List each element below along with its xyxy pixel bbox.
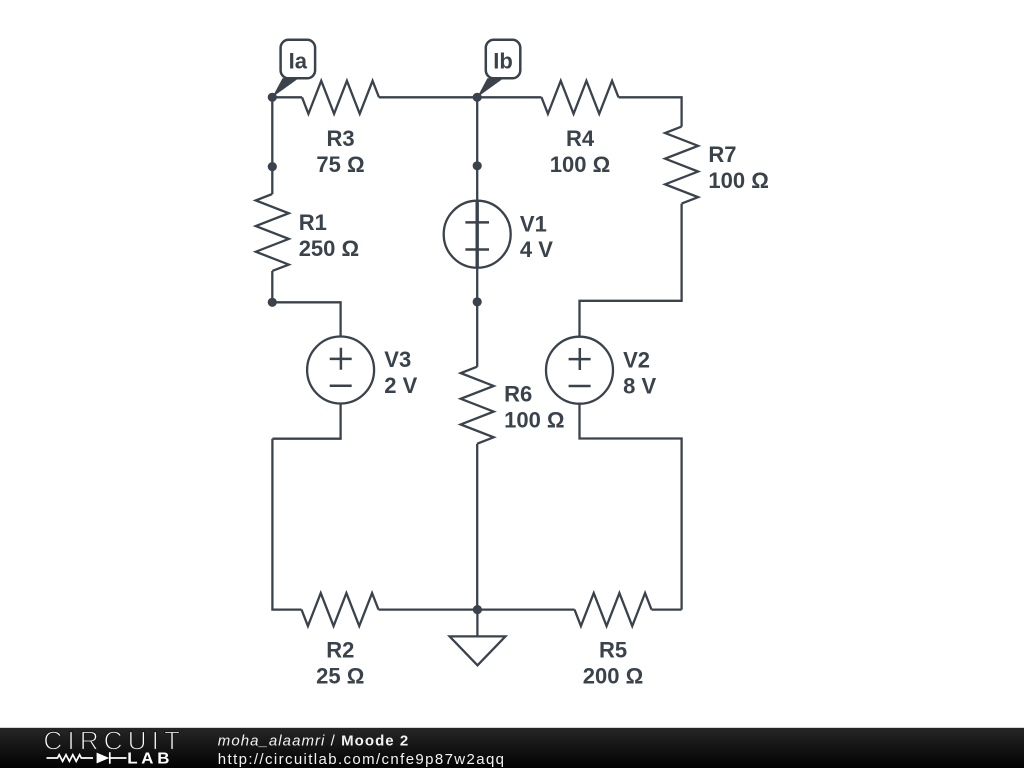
resistor R5 zigzag [575,593,652,626]
resistor R4 zigzag [542,81,619,114]
svg-text:Ib: Ib [493,49,513,74]
ground node junction dot [473,605,482,614]
current flag Ib [477,40,520,98]
resistor R7 zigzag [665,127,698,204]
V3 plus sign [330,348,352,370]
wire R4 to right rail corner [619,97,682,126]
current flag Ia [272,40,315,98]
svg-text:25 Ω: 25 Ω [316,663,364,688]
footer bar [0,728,1024,768]
svg-text:R4: R4 [566,126,595,151]
svg-text:R7: R7 [708,142,736,167]
svg-text:100 Ω: 100 Ω [504,408,564,433]
node D junction dot mid rail [473,161,482,170]
svg-text:2 V: 2 V [384,373,417,398]
svg-text:V1: V1 [520,211,547,236]
wire R3 to node B [379,96,477,98]
wire ground node to R2 [379,608,478,610]
resistor R6 zigzag [461,367,494,444]
node E junction dot left rail lower [268,298,277,307]
svg-text:V3: V3 [384,347,411,372]
ground stem [476,610,478,637]
logo CIRCUIT word [43,725,185,755]
svg-text:LAB: LAB [127,751,173,768]
wire V2 bottom jog to right rail [580,404,682,610]
logo diode [97,753,110,764]
voltage source V2 circle [546,337,613,404]
svg-text:R1: R1 [299,210,327,235]
svg-text:4 V: 4 V [520,237,553,262]
V2 minus sign [569,385,591,388]
resistor R3 zigzag [302,81,379,114]
wire R7 to V2 top jog [580,204,682,337]
ground triangle [450,636,506,665]
node B junction dot [473,93,482,102]
node F junction dot mid rail lower [473,297,482,306]
wire node A to R3 [272,96,302,98]
wire V3 top jog to node E [272,302,340,336]
svg-text:250 Ω: 250 Ω [299,236,359,261]
node C junction dot left rail [268,162,277,171]
svg-text:http://circuitlab.com/cnfe9p87: http://circuitlab.com/cnfe9p87w2aqq [218,751,506,768]
svg-text:100 Ω: 100 Ω [708,168,768,193]
svg-text:moha_alaamri / Moode 2: moha_alaamri / Moode 2 [218,732,409,749]
wire right rail to R5 [652,608,682,610]
V1 through wire [476,201,479,268]
wire R6 to ground node [476,444,478,610]
logo resistor zigzag [47,755,94,762]
node A junction dot [268,93,277,102]
resistor R2 zigzag [302,593,379,626]
voltage source V3 circle [307,337,374,404]
resistor R1 zigzag [256,194,289,271]
svg-text:200 Ω: 200 Ω [583,663,643,688]
svg-text:V2: V2 [623,347,650,372]
wire node E up to R1 [271,271,273,302]
svg-text:R3: R3 [326,126,354,151]
V3 minus sign [330,385,352,388]
wire R1 top to node A [271,97,273,194]
svg-text:R5: R5 [599,637,627,662]
svg-text:Ia: Ia [289,49,308,74]
wire node B down to V1 [476,97,478,201]
voltage source V1 circle [444,201,511,268]
V1 lower bar [465,248,489,251]
wire V1 bottom to R6 [476,268,478,367]
svg-text:100 Ω: 100 Ω [550,152,610,177]
wire R2 to left rail corner [272,439,301,610]
wire R5 to ground node [477,608,574,610]
V2 plus sign [569,348,591,370]
wire left rail to V3 bottom jog [272,404,340,439]
svg-text:R2: R2 [326,637,354,662]
svg-text:8 V: 8 V [623,373,656,398]
V1 upper bar [465,221,489,224]
svg-text:75 Ω: 75 Ω [316,152,364,177]
svg-text:R6: R6 [504,381,532,406]
wire node B to R4 [477,96,541,98]
